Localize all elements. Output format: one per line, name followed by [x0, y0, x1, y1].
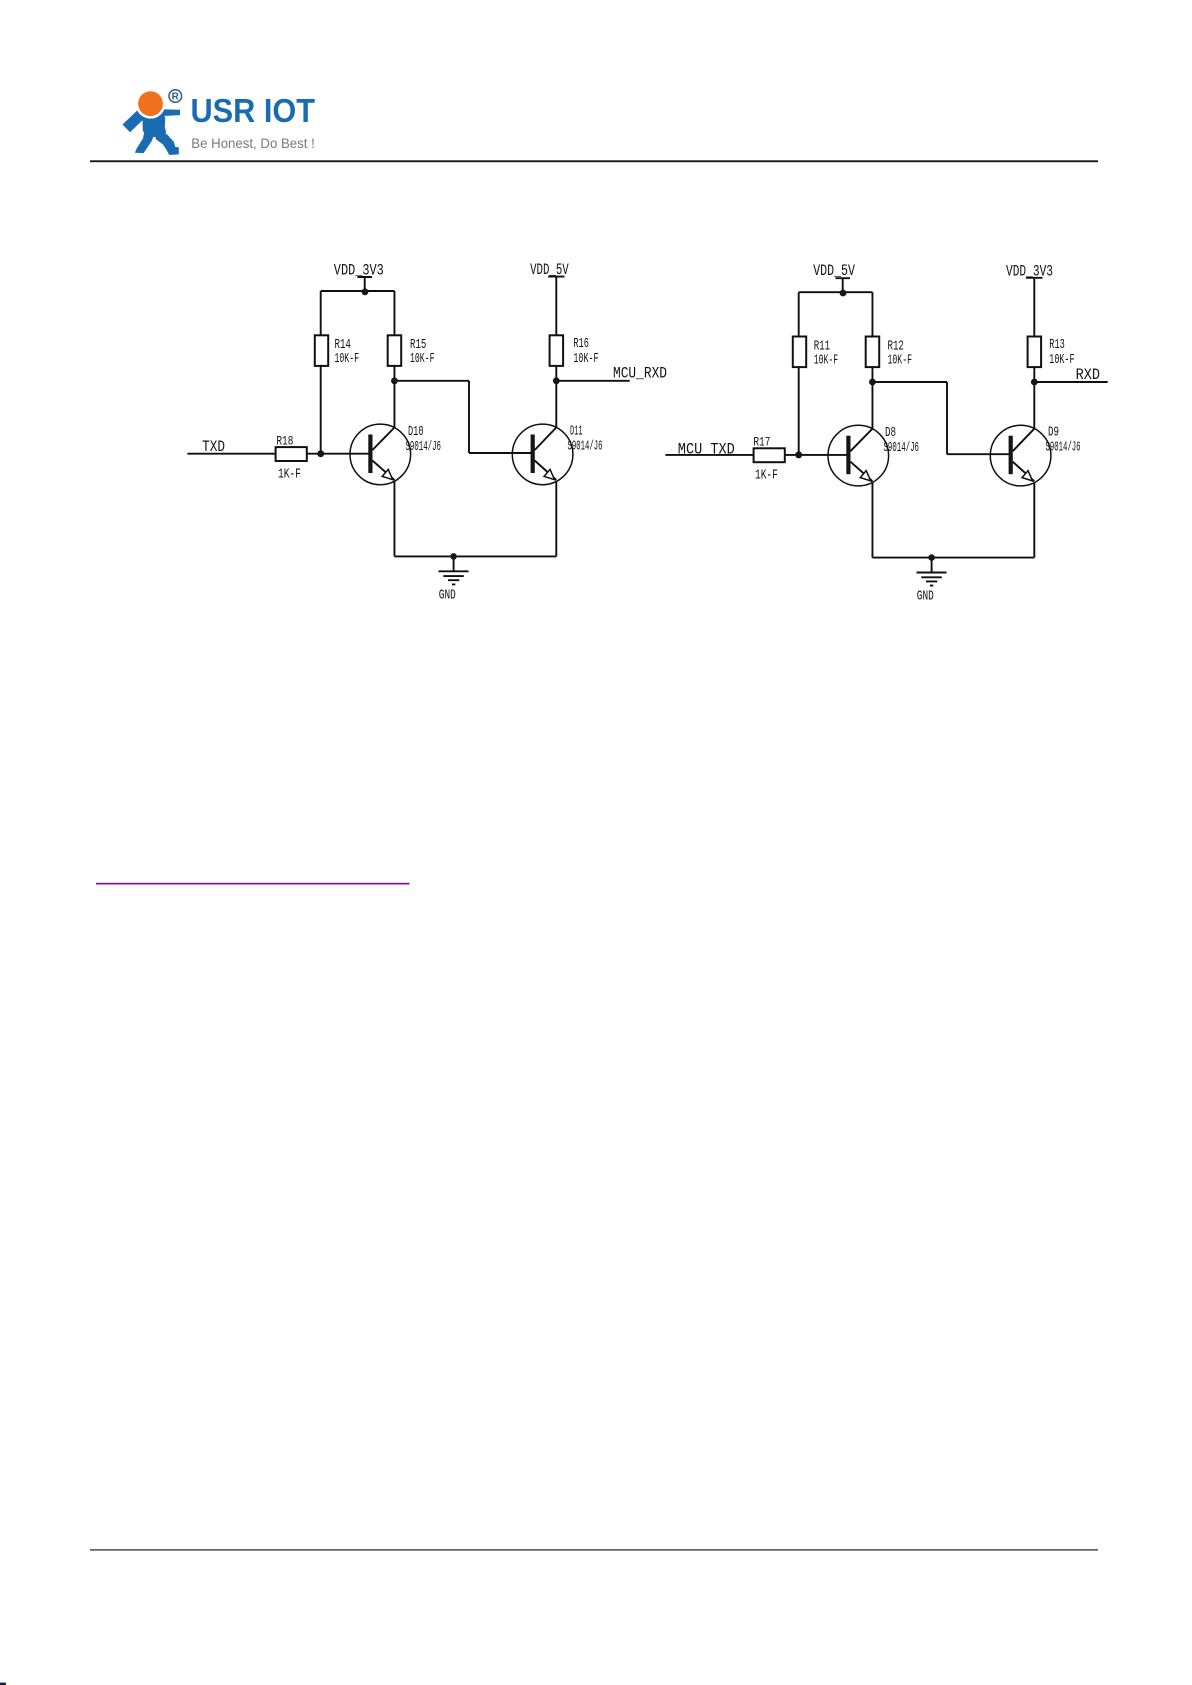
- svg-text:10K-F: 10K-F: [1049, 352, 1074, 368]
- svg-text:VDD_5V: VDD_5V: [530, 261, 569, 279]
- svg-text:MCU_RXD: MCU_RXD: [613, 365, 667, 383]
- svg-text:R17: R17: [753, 435, 770, 450]
- svg-text:R: R: [172, 92, 180, 103]
- svg-text:R16: R16: [573, 336, 589, 352]
- svg-text:10K-F: 10K-F: [814, 352, 839, 368]
- svg-text:D8: D8: [885, 425, 896, 441]
- svg-text:S9014/J6: S9014/J6: [1046, 441, 1081, 456]
- svg-text:10K-F: 10K-F: [410, 351, 435, 367]
- svg-text:Be Honest, Do Best !: Be Honest, Do Best !: [191, 136, 314, 151]
- svg-text:GND: GND: [439, 587, 456, 603]
- svg-text:S9014/J6: S9014/J6: [884, 441, 920, 456]
- svg-text:VDD_3V3: VDD_3V3: [1006, 263, 1053, 281]
- svg-text:RXD: RXD: [1076, 366, 1100, 384]
- svg-text:R18: R18: [276, 434, 293, 449]
- svg-text:10K-F: 10K-F: [573, 351, 598, 367]
- svg-text:USR IOT: USR IOT: [191, 92, 316, 129]
- svg-text:D11: D11: [570, 423, 583, 439]
- svg-text:VDD_3V3: VDD_3V3: [334, 261, 384, 279]
- svg-text:10K-F: 10K-F: [335, 351, 360, 367]
- svg-text:R13: R13: [1049, 337, 1065, 353]
- svg-text:TXD: TXD: [202, 438, 225, 456]
- svg-text:MCU_TXD: MCU_TXD: [678, 441, 735, 459]
- svg-text:GND: GND: [917, 589, 934, 605]
- svg-text:1K-F: 1K-F: [755, 469, 778, 484]
- svg-text:S9014/J6: S9014/J6: [568, 440, 603, 455]
- svg-text:1K-F: 1K-F: [278, 468, 301, 483]
- svg-text:D10: D10: [408, 424, 424, 440]
- svg-text:D9: D9: [1048, 425, 1059, 441]
- svg-text:VDD_5V: VDD_5V: [813, 262, 855, 280]
- svg-text:S9014/J6: S9014/J6: [406, 440, 442, 455]
- svg-text:10K-F: 10K-F: [888, 352, 913, 368]
